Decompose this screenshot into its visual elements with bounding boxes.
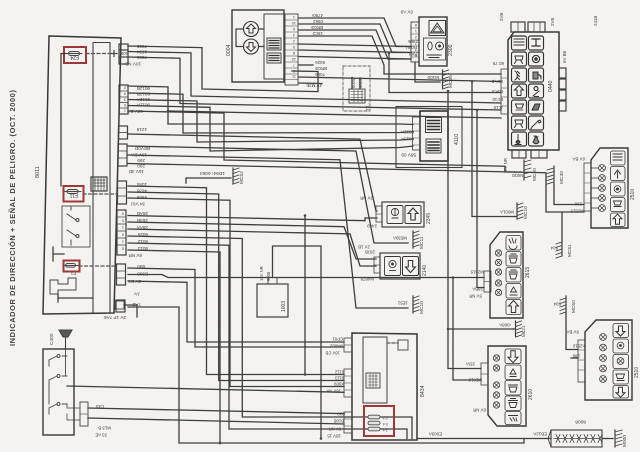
svg-text:16V NR: 16V NR bbox=[259, 266, 264, 281]
control unit 4110 outer box bbox=[396, 107, 462, 168]
diode unit 1003 box bbox=[257, 284, 288, 317]
8434 relay grid bbox=[366, 373, 380, 388]
svg-text:4V M3E: 4V M3E bbox=[306, 83, 322, 88]
wire 9026b band bbox=[299, 82, 322, 85]
wire M2615 to MC61 bbox=[562, 212, 584, 240]
svg-text:5: 5 bbox=[122, 219, 124, 223]
wire F24 left leg bbox=[61, 54, 66, 187]
svg-text:INDICADOR DE DIRECCIÓN + SEÑAL: INDICADOR DE DIRECCIÓN + SEÑAL DE PELIGR… bbox=[8, 89, 17, 346]
svg-text:16V CB: 16V CB bbox=[325, 351, 340, 356]
svg-text:4790‹: 4790‹ bbox=[311, 13, 323, 18]
wire band 74 bbox=[389, 53, 501, 93]
svg-text:7006: 7006 bbox=[315, 72, 325, 77]
wire 1084 to 8434 bbox=[128, 186, 344, 375]
0440 icon row4 right belt bbox=[529, 84, 544, 98]
svg-text:4L10: 4L10 bbox=[493, 105, 503, 110]
svg-text:0: 0 bbox=[124, 103, 126, 107]
2510b pins bbox=[600, 334, 607, 383]
svg-text:10: 10 bbox=[292, 21, 296, 25]
wire BR03 bbox=[299, 30, 411, 59]
svg-text:5026: 5026 bbox=[315, 60, 325, 65]
2610 icon col bbox=[505, 349, 521, 425]
wire 7005 cascade bbox=[128, 46, 318, 92]
connector 4P at BSI bottom bbox=[104, 315, 126, 320]
wire 25A vertical bbox=[448, 91, 481, 369]
wire F11 dashed right bbox=[83, 193, 117, 195]
2140 icon cell 1 bbox=[385, 257, 401, 276]
8434 fuse AF3 bbox=[368, 421, 388, 426]
2140 icon cell 2 arrow down bbox=[403, 257, 419, 276]
wire 7006 cascade bbox=[128, 57, 501, 110]
svg-text:M020: M020 bbox=[511, 173, 523, 178]
svg-text:M021: M021 bbox=[521, 325, 526, 337]
svg-text:58V 09: 58V 09 bbox=[401, 153, 416, 158]
stalk contact 1 bbox=[49, 355, 67, 367]
svg-text:10V NB: 10V NB bbox=[125, 62, 141, 67]
stalk contact 3 bbox=[49, 386, 67, 414]
2615 icon col bbox=[506, 236, 521, 315]
wire 60VBA to MC20 bbox=[128, 111, 521, 172]
svg-text:6V A9: 6V A9 bbox=[400, 10, 413, 15]
svg-text:1: 1 bbox=[293, 15, 295, 19]
2510b left pin strip bbox=[578, 340, 585, 382]
hazard switch 2300 box bbox=[419, 17, 447, 66]
svg-text:M4878: M4878 bbox=[360, 277, 374, 282]
svg-text:8: 8 bbox=[415, 23, 417, 27]
svg-text:241B: 241B bbox=[593, 16, 598, 26]
svg-text:2610: 2610 bbox=[528, 389, 534, 400]
2140 pin strip bbox=[374, 257, 380, 273]
wire 2B4B to 2140 bbox=[128, 222, 376, 259]
svg-text:B10B: B10B bbox=[334, 419, 344, 424]
fuse F1 red highlight box bbox=[64, 261, 80, 272]
svg-text:504: 504 bbox=[550, 246, 558, 251]
junction 389 bbox=[388, 52, 391, 55]
BSI bottom connector 1A bbox=[115, 301, 124, 309]
svg-text:2300: 2300 bbox=[448, 44, 454, 56]
svg-text:16V 4D: 16V 4D bbox=[128, 169, 144, 174]
svg-text:MC60: MC60 bbox=[571, 300, 577, 313]
ground MC60 bbox=[560, 296, 566, 314]
svg-text:2: 2 bbox=[124, 86, 126, 90]
wire 9026c to 2300 bbox=[299, 44, 411, 47]
svg-text:6V BE: 6V BE bbox=[562, 50, 567, 63]
svg-text:F24: F24 bbox=[70, 54, 79, 60]
repeater 2510 bottom box bbox=[585, 320, 632, 400]
wire stalk lower to right bbox=[88, 418, 344, 424]
svg-text:2V 1B: 2V 1B bbox=[358, 245, 370, 250]
fuse F11 symbol bbox=[65, 190, 81, 194]
svg-text:9112: 9112 bbox=[334, 370, 344, 375]
4110 icon chip bottom bbox=[426, 139, 441, 153]
svg-text:7: 7 bbox=[293, 63, 295, 67]
0440 left pin strip bbox=[501, 69, 508, 114]
lever bracket symbol bbox=[50, 278, 76, 294]
stalk switch C400 antenna symbol bbox=[59, 330, 72, 349]
0440 icon row6 right wrench bbox=[529, 116, 544, 130]
2610 pins bbox=[493, 355, 499, 408]
relay 2140 box bbox=[380, 253, 420, 279]
flasher unit 0004 box bbox=[232, 10, 284, 82]
instrument cluster 0440 box bbox=[508, 32, 559, 150]
svg-text:M100: M100 bbox=[427, 75, 439, 80]
0440 icon row1 right telltale bbox=[529, 36, 544, 50]
svg-text:8: 8 bbox=[293, 51, 295, 55]
stalk switch box bbox=[43, 349, 74, 435]
flasher icon chip bbox=[267, 38, 281, 63]
8434 fuse AF1 bbox=[368, 427, 388, 432]
wire 1634 cascade bbox=[128, 52, 501, 104]
svg-text:8434: 8434 bbox=[420, 385, 426, 397]
svg-text:9: 9 bbox=[122, 233, 124, 237]
0440 icon row5 right door bbox=[529, 100, 544, 114]
wire 2VD9 to 8434 bbox=[128, 281, 344, 342]
svg-text:1E51: 1E51 bbox=[397, 301, 408, 306]
0440 icon row7 left temp bbox=[512, 132, 527, 146]
2615 left connector ab bbox=[484, 271, 491, 292]
svg-text:8008: 8008 bbox=[575, 419, 586, 425]
wire 9006 to 2300 bbox=[299, 50, 411, 53]
0440 icon row3 left fog bbox=[512, 68, 527, 82]
wire 5026 stub bbox=[299, 64, 313, 66]
relay K1 grid block bbox=[91, 177, 107, 191]
wire 290 long right bbox=[128, 164, 562, 213]
svg-text:5: 5 bbox=[415, 53, 417, 57]
svg-text:6D 79: 6D 79 bbox=[492, 61, 504, 66]
svg-text:C400: C400 bbox=[49, 333, 55, 345]
svg-text:3: 3 bbox=[124, 98, 126, 102]
ground MC20 bbox=[524, 160, 531, 180]
connector 2A3D on BSI bbox=[119, 85, 128, 114]
svg-text:1003: 1003 bbox=[281, 301, 287, 312]
svg-text:0440: 0440 bbox=[548, 80, 554, 92]
8434 dashed link bbox=[387, 342, 398, 344]
8434 left connector bottom bbox=[344, 412, 352, 433]
8434 tab bbox=[398, 340, 408, 350]
svg-text:2V 1P 7AE: 2V 1P 7AE bbox=[104, 315, 126, 320]
0440 icon row2 right oil bbox=[529, 52, 544, 66]
svg-text:8011: 8011 bbox=[35, 166, 41, 178]
fuse F24 red highlight box bbox=[64, 47, 86, 63]
fuse F24 symbol bbox=[66, 52, 82, 56]
ground MC52 bbox=[233, 168, 239, 184]
2510b icon col bbox=[613, 324, 629, 399]
connector 10618 on BSI bbox=[119, 44, 128, 64]
0440 icon row2 left lamp bbox=[512, 52, 527, 66]
2345 icon cell 1 bbox=[387, 206, 403, 224]
svg-text:4: 4 bbox=[124, 92, 126, 96]
wire bracket down bbox=[58, 294, 93, 302]
wire 28AB to 2345 bbox=[128, 216, 377, 221]
BSI unit 8011 outer box bbox=[43, 36, 121, 314]
wire 9026 to 8434 bbox=[128, 236, 412, 439]
0440 top tab 2 bbox=[528, 22, 545, 32]
svg-text:6V NR: 6V NR bbox=[473, 408, 486, 413]
wire 289 stub bbox=[571, 357, 578, 359]
ground MC11 bbox=[413, 231, 419, 248]
8434 fuse AF2 bbox=[368, 415, 388, 420]
svg-text:4909: 4909 bbox=[136, 195, 147, 200]
0440 top tab 1 bbox=[511, 22, 525, 32]
wire stalk upper to right bbox=[88, 408, 344, 414]
svg-text:504: 504 bbox=[553, 302, 561, 307]
svg-text:6: 6 bbox=[293, 27, 295, 31]
svg-text:F2: F2 bbox=[383, 416, 388, 421]
wire BEV0D diag to MC11 bbox=[128, 146, 408, 243]
connector 1214 on BSI bbox=[119, 126, 128, 139]
8434 left connector mid bbox=[344, 369, 352, 397]
svg-text:1: 1 bbox=[415, 29, 417, 33]
svg-text:2: 2 bbox=[293, 39, 295, 43]
stalk connector bbox=[67, 402, 88, 426]
2510 icon col bbox=[611, 151, 626, 227]
svg-text:MC10: MC10 bbox=[419, 301, 425, 314]
1003 wire up bbox=[273, 246, 322, 439]
svg-text:CP01: CP01 bbox=[332, 337, 343, 342]
svg-text:00A,4: 00A,4 bbox=[491, 89, 503, 94]
8434 red fuse box bbox=[364, 406, 394, 436]
svg-text:5: 5 bbox=[293, 45, 295, 49]
wire B900 to M2615 line bbox=[128, 275, 484, 278]
side repeater 2615 box bbox=[490, 232, 523, 318]
wire 7AE bottom bbox=[128, 307, 524, 443]
svg-text:2VB: 2VB bbox=[499, 13, 504, 21]
0440 icon row6 left lamp3 bbox=[512, 116, 527, 130]
wire BSI bottom 2VJP bbox=[124, 305, 137, 317]
svg-text:34 V6J: 34 V6J bbox=[131, 202, 145, 207]
svg-text:MC52: MC52 bbox=[239, 171, 245, 184]
4110 icon chip top bbox=[426, 118, 442, 133]
wire branch 112 bbox=[168, 111, 501, 118]
svg-text:1D94‹ 6064: 1D94‹ 6064 bbox=[200, 170, 225, 176]
wire M100 to MC35 bbox=[415, 62, 440, 82]
svg-text:2VB: 2VB bbox=[550, 18, 555, 26]
wire 19C bbox=[299, 36, 501, 74]
svg-text:2140: 2140 bbox=[422, 265, 428, 276]
wire 299 to MC10 bbox=[128, 155, 408, 308]
pin digits 2300 bbox=[415, 23, 417, 57]
BSI inner compartment bbox=[93, 43, 110, 314]
bottom wire E003A to 8008 bbox=[417, 438, 551, 440]
wire labels BSI connector 1 bbox=[125, 44, 147, 67]
0440 left pin labels bbox=[491, 61, 504, 110]
svg-text:4218: 4218 bbox=[136, 127, 147, 132]
svg-text:4110: 4110 bbox=[454, 134, 460, 145]
wires into 72 box bbox=[352, 78, 360, 89]
svg-text:2: 2 bbox=[415, 35, 417, 39]
0440 icon row5 left lamp2 bbox=[512, 100, 527, 114]
wire 28BA vertical bbox=[477, 110, 484, 288]
ground MC10 mid bbox=[413, 296, 419, 313]
inline connector 8008 bbox=[548, 430, 602, 447]
wire 9012 to 8434 bbox=[128, 243, 407, 439]
2610 left connector ab bbox=[481, 363, 488, 385]
wire 1094 6064 to MC52 bbox=[186, 178, 231, 183]
svg-text:MC61: MC61 bbox=[567, 244, 573, 257]
svg-text:MC30: MC30 bbox=[559, 171, 565, 184]
4110 inner module bbox=[420, 111, 448, 161]
0440 bottom tabs bbox=[512, 150, 547, 158]
wire 9013 to 8434 bbox=[128, 250, 220, 443]
wire F1 to connector bbox=[79, 265, 117, 267]
0440 icon row3 right pump bbox=[529, 68, 544, 82]
svg-text:2449: 2449 bbox=[367, 224, 377, 229]
svg-text:33 AE: 33 AE bbox=[95, 433, 107, 438]
wire 9012A cascade2 bbox=[128, 100, 413, 143]
svg-text:JA‹: JA‹ bbox=[133, 292, 140, 297]
wire 4635 to 8434 bbox=[128, 192, 344, 381]
svg-text:2V NR: 2V NR bbox=[360, 196, 373, 201]
svg-text:2345: 2345 bbox=[426, 213, 432, 224]
svg-text:9113: 9113 bbox=[334, 376, 344, 381]
svg-text:M000: M000 bbox=[622, 435, 628, 447]
node plus mark bbox=[111, 51, 117, 57]
leads circles to box edge bbox=[236, 29, 264, 47]
svg-text:0962: 0962 bbox=[313, 19, 323, 24]
svg-text:MC10: MC10 bbox=[523, 206, 529, 219]
fuse F11 red highlight box bbox=[64, 186, 84, 202]
indicator arrow-down symbol bbox=[244, 39, 259, 54]
connector D1613 on BSI bbox=[118, 144, 127, 166]
svg-text:72..: 72.. bbox=[365, 103, 371, 111]
svg-text:9008: 9008 bbox=[266, 271, 271, 281]
repeater 2510 top box bbox=[591, 148, 628, 228]
wire labels BSI connector 2 bbox=[126, 86, 150, 307]
connector D9E16 on BSI bbox=[117, 210, 126, 255]
svg-text:6V BA: 6V BA bbox=[566, 330, 579, 335]
svg-text:0004: 0004 bbox=[226, 44, 232, 56]
wire M2610 from M2615 line bbox=[453, 278, 481, 381]
connector strip 0004 pins bbox=[285, 14, 298, 85]
switch assembly inside BSI bbox=[62, 206, 90, 247]
svg-text:5V NR: 5V NR bbox=[469, 294, 482, 299]
wire h2510 to MC60 bbox=[566, 312, 578, 350]
svg-text:MC35: MC35 bbox=[448, 75, 454, 88]
8434 inner module bbox=[363, 337, 387, 403]
svg-text:M2615: M2615 bbox=[570, 209, 584, 214]
stalk wire mid bbox=[67, 386, 344, 392]
wire 4909 to 8434 bbox=[128, 198, 344, 387]
2510 pins bbox=[591, 165, 605, 212]
svg-text:25/A: 25/A bbox=[466, 362, 475, 367]
svg-text:12: 12 bbox=[292, 57, 296, 61]
wire 4218 to 2345 diag bbox=[128, 134, 377, 211]
hazard triangle icon bbox=[429, 21, 446, 36]
svg-text:00A,B: 00A,B bbox=[491, 79, 503, 84]
wire 9011A cascade2 bbox=[128, 106, 413, 152]
ground M021 bbox=[513, 321, 522, 337]
fuse F1 symbol bbox=[63, 264, 79, 268]
svg-text:6V BA: 6V BA bbox=[572, 157, 585, 162]
svg-text:106: 106 bbox=[120, 51, 128, 56]
svg-text:2510: 2510 bbox=[634, 367, 640, 378]
flasher 0004 inner board bbox=[264, 14, 284, 79]
2510 left pin strip bbox=[584, 163, 591, 211]
wire 0962 bbox=[299, 24, 411, 53]
wire 4790 bbox=[299, 18, 411, 47]
svg-text:‹008A: ‹008A bbox=[499, 323, 511, 328]
stalk contact 2 bbox=[49, 349, 67, 386]
svg-text:11: 11 bbox=[292, 75, 296, 79]
svg-text:9: 9 bbox=[122, 212, 124, 216]
ground MC10 right bbox=[514, 203, 523, 219]
svg-text:BR03‹: BR03‹ bbox=[310, 25, 323, 30]
svg-text:EB12A: EB12A bbox=[533, 432, 547, 437]
svg-text:9912A: 9912A bbox=[401, 130, 414, 135]
svg-text:2510: 2510 bbox=[630, 189, 636, 200]
2615 pins bbox=[495, 250, 501, 296]
svg-text:6V NR: 6V NR bbox=[503, 158, 508, 171]
svg-text:E003A: E003A bbox=[429, 432, 442, 437]
svg-text:M539A: M539A bbox=[393, 236, 407, 241]
svg-text:F1: F1 bbox=[383, 428, 388, 433]
svg-text:1: 1 bbox=[124, 109, 126, 113]
svg-text:MC11: MC11 bbox=[419, 236, 425, 249]
svg-text:299: 299 bbox=[137, 158, 145, 163]
svg-text:F3: F3 bbox=[383, 422, 388, 427]
svg-text:MC20: MC20 bbox=[532, 168, 538, 181]
svg-text:6V NR: 6V NR bbox=[128, 253, 142, 258]
pin numbers 0004 strip bbox=[292, 15, 296, 79]
wire branch 9112 down bbox=[304, 216, 306, 375]
svg-text:M4002: M4002 bbox=[330, 344, 343, 349]
8434 left connector top bbox=[344, 338, 352, 352]
connector strip 2300 bbox=[411, 22, 419, 62]
ground MC30 bbox=[547, 166, 554, 184]
wire 28AA to 2140 bbox=[128, 229, 376, 266]
wire 9013B cascade2 bbox=[128, 93, 413, 133]
1003 connector tab bbox=[268, 278, 277, 285]
2345 icon cell 2 arrow up bbox=[405, 206, 421, 224]
ground MC61 bbox=[556, 240, 562, 258]
wire labels to 2300 bbox=[406, 39, 418, 57]
wire 8008 to ground bbox=[602, 438, 613, 440]
wire 2965b to 2300 bbox=[299, 57, 411, 60]
ground MC35 bbox=[443, 70, 449, 89]
svg-text:h2510: h2510 bbox=[572, 344, 585, 349]
0440 icon row7 right washer bbox=[529, 132, 544, 146]
svg-text:3: 3 bbox=[415, 48, 417, 52]
0440 icon row1 left telltale bbox=[512, 36, 527, 50]
connector 1A on BSI bbox=[116, 300, 125, 312]
svg-text:9013A: 9013A bbox=[401, 137, 414, 142]
wire F24 dashed to connector bbox=[86, 53, 110, 55]
connector B1D1B on BSI bbox=[118, 181, 127, 204]
svg-text:M001A: M001A bbox=[500, 210, 514, 215]
fuse-relay box 8434 bbox=[352, 333, 417, 440]
wire labels 0004 top bbox=[310, 13, 323, 36]
svg-text:X909: X909 bbox=[334, 382, 344, 387]
svg-text:3: 3 bbox=[293, 33, 295, 37]
4110 connector strip bbox=[413, 117, 421, 150]
pin digits c6 bbox=[122, 212, 124, 251]
wire M001A to MC10r bbox=[472, 81, 514, 216]
2345 pin strip bbox=[376, 206, 382, 222]
dashed interconnect box 72 bbox=[343, 66, 370, 111]
svg-text:F11: F11 bbox=[70, 192, 78, 198]
wire 9012B cascade bbox=[128, 86, 413, 125]
8434 wire labels bbox=[325, 337, 345, 439]
svg-text:M13 B: M13 B bbox=[98, 426, 111, 431]
wire 290 to MC30 bbox=[554, 184, 584, 205]
svg-text:1: 1 bbox=[122, 240, 124, 244]
indicator arrow-up symbol bbox=[244, 22, 259, 37]
0440 right tabs bbox=[559, 68, 566, 111]
svg-text:19C2: 19C2 bbox=[312, 31, 323, 36]
wire switch to fuse F1 bbox=[53, 247, 64, 261]
svg-text:7: 7 bbox=[415, 42, 417, 46]
junction dots band bbox=[471, 80, 474, 83]
